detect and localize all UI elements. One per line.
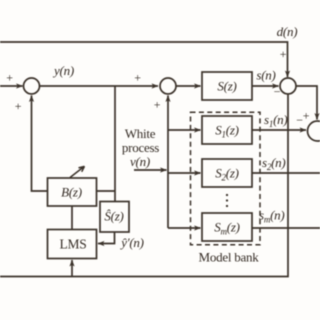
wire S-hat output into LMS: [98, 232, 115, 244]
svg-text:+: +: [15, 99, 22, 113]
svg-text:sm(n): sm(n): [259, 208, 284, 225]
svg-text:Model bank: Model bank: [199, 250, 260, 265]
box S(z) secondary path: [202, 72, 252, 100]
wire bus branch to Sm(z): [168, 227, 201, 229]
wire v(n) bus up into node 2: [167, 96, 169, 229]
svg-text:+: +: [303, 109, 310, 123]
wire sm(n) to edge: [252, 227, 320, 229]
wire error e(n) down and along bottom: [0, 94, 288, 277]
svg-text:ŷ′(n): ŷ′(n): [119, 235, 144, 250]
summing node 2: [160, 78, 176, 94]
wire input into summing node 1: [0, 85, 23, 87]
box LMS: [48, 230, 97, 259]
wire error up into LMS: [71, 260, 73, 277]
svg-text:Ŝ(z): Ŝ(z): [104, 209, 123, 224]
svg-text:S2(z): S2(z): [215, 166, 238, 183]
box S2(z): [202, 159, 252, 187]
box Sm(z): [202, 213, 252, 241]
box S1(z): [202, 116, 252, 144]
model bank dashed box: [191, 112, 261, 245]
svg-text:s1(n): s1(n): [264, 112, 287, 129]
svg-text:+: +: [154, 98, 161, 112]
summing node 4: [308, 121, 320, 141]
svg-text:−: −: [296, 113, 303, 127]
svg-text:−: −: [274, 85, 281, 99]
svg-text:s(n): s(n): [256, 68, 275, 83]
wire d(n) top reference path: [0, 42, 288, 77]
box S-hat(z) secondary path estimate: [100, 202, 129, 233]
wire bus branch to S2(z): [168, 172, 201, 174]
svg-text:S1(z): S1(z): [215, 123, 238, 140]
svg-text:s2(n): s2(n): [262, 155, 285, 172]
wire s1(n) into node 4: [252, 129, 306, 131]
wire into B(z) right side: [97, 190, 116, 192]
wire y(n) tap down to B(z) and S^(z): [114, 86, 116, 202]
svg-text:B(z): B(z): [61, 185, 82, 200]
wire bus branch to S1(z): [168, 129, 201, 131]
vertical ellipsis in model bank: [226, 194, 228, 207]
svg-text:Sm(z): Sm(z): [214, 220, 239, 237]
wire LMS to B(z) update: [71, 206, 73, 230]
svg-text:S(z): S(z): [217, 79, 236, 94]
svg-text:d(n): d(n): [277, 24, 298, 39]
wire s(n) into summing node 3: [252, 85, 279, 87]
summing node 1: [24, 78, 40, 94]
svg-text:+: +: [134, 71, 141, 85]
svg-text:v(n): v(n): [130, 154, 150, 169]
wire node 2 to S(z): [176, 85, 201, 87]
box B(z) feedback filter: [48, 178, 97, 206]
wire y(n) from node 1 to summing node 2: [40, 85, 159, 87]
svg-text:White: White: [125, 126, 156, 141]
wire B(z) output up into node 1: [32, 96, 48, 192]
wire s2(n) to edge: [252, 172, 320, 174]
svg-text:+: +: [6, 71, 13, 85]
wire v(n) arrow: [134, 169, 167, 171]
svg-text:y(n): y(n): [52, 63, 74, 78]
svg-text:process: process: [122, 140, 159, 155]
svg-text:+: +: [280, 47, 287, 61]
summing node 3: [280, 78, 296, 94]
adaptation arrow on B(z): [70, 166, 85, 177]
svg-text:LMS: LMS: [59, 237, 86, 252]
wire node 3 to summing node 4: [296, 86, 317, 120]
